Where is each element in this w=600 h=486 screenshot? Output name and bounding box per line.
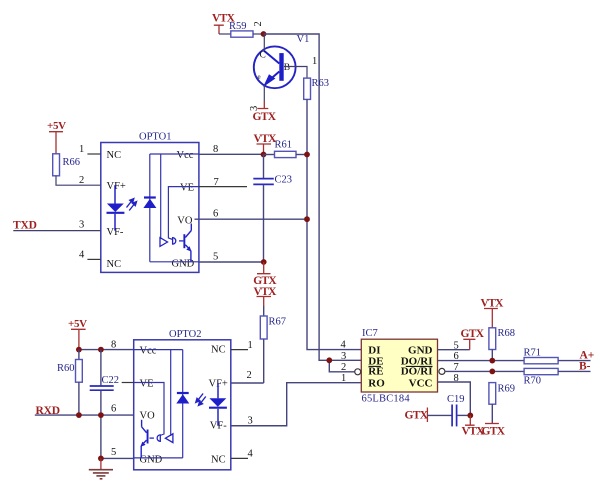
svg-text:RO: RO xyxy=(368,377,385,389)
inner gnd rail xyxy=(134,457,183,459)
svg-text:GND: GND xyxy=(408,344,433,356)
node DE/RE xyxy=(326,357,332,363)
wire pin8 VCC to C19 node xyxy=(438,382,471,415)
svg-text:B: B xyxy=(284,63,290,73)
buffer gate xyxy=(160,238,183,247)
power VTX top xyxy=(212,13,236,35)
VE inner wire xyxy=(168,187,199,240)
light arrows xyxy=(127,199,137,211)
pin 1 stub xyxy=(87,153,100,155)
power +5V (R66) xyxy=(47,120,66,154)
wire OPTO1 pin6 to R63 net xyxy=(195,218,308,220)
power +5V (R60) xyxy=(68,318,87,350)
node: R59 / V1 / DE net xyxy=(261,31,267,37)
wire node to DE vertical xyxy=(264,34,362,360)
svg-text:R63: R63 xyxy=(312,78,330,89)
svg-text:VTX: VTX xyxy=(462,425,486,437)
resistor R61 xyxy=(264,140,308,158)
node +5V/R60 xyxy=(76,347,82,353)
wire base to R63 xyxy=(284,67,307,79)
pin 2 bubble xyxy=(355,369,361,375)
svg-text:3: 3 xyxy=(341,351,346,362)
output transistor (mirrored) xyxy=(140,420,148,458)
svg-text:R66: R66 xyxy=(63,157,81,168)
inner rail B to buffer xyxy=(170,350,172,436)
wire R63 to DI (long vertical) xyxy=(307,99,361,349)
svg-text:GND: GND xyxy=(140,455,163,466)
svg-text:R67: R67 xyxy=(269,317,287,328)
svg-text:R68: R68 xyxy=(498,328,516,339)
svg-text:NC: NC xyxy=(211,345,226,356)
output transistor xyxy=(183,224,191,262)
optocoupler OPTO1 xyxy=(79,131,247,272)
svg-text:7: 7 xyxy=(214,177,219,188)
light arrows (mirrored) xyxy=(196,394,206,406)
SECTION: opto2 xyxy=(35,318,362,479)
svg-text:C23: C23 xyxy=(275,175,293,186)
svg-text:8: 8 xyxy=(111,340,116,351)
svg-text:NC: NC xyxy=(107,150,122,161)
wire pin5 to GTX xyxy=(438,349,470,351)
power VTX (R61) xyxy=(254,133,278,155)
svg-text:B-: B- xyxy=(579,361,591,373)
power GTX (V1 emitter) xyxy=(253,101,277,123)
svg-text:DO/RI: DO/RI xyxy=(401,366,433,378)
svg-text:65LBC184: 65LBC184 xyxy=(362,394,411,405)
svg-text:R71: R71 xyxy=(524,347,542,358)
svg-text:4: 4 xyxy=(341,340,347,351)
power GTX (R69) xyxy=(482,424,506,438)
svg-text:R70: R70 xyxy=(524,376,542,387)
svg-text:Vcc: Vcc xyxy=(177,150,194,161)
svg-text:6: 6 xyxy=(213,209,218,220)
svg-text:2: 2 xyxy=(79,175,84,186)
VE inner wire xyxy=(134,383,164,436)
node R68 xyxy=(489,358,495,364)
svg-text:OPTO1: OPTO1 xyxy=(139,131,171,142)
svg-text:VE: VE xyxy=(140,379,154,390)
svg-text:3: 3 xyxy=(79,220,84,231)
IC U7 (65LBC184) xyxy=(355,328,445,405)
power GTX (mid) xyxy=(253,262,277,287)
svg-text:+5V: +5V xyxy=(47,120,66,132)
node R61/R63 net xyxy=(304,152,310,158)
svg-text:NC: NC xyxy=(107,259,122,270)
SECTION: top transistor xyxy=(212,13,361,361)
svg-text:1: 1 xyxy=(248,340,253,351)
svg-text:GTX: GTX xyxy=(461,328,485,340)
optocoupler OPTO2 xyxy=(111,329,254,470)
transistor V1 xyxy=(254,34,310,101)
node VTX/R61/C23 xyxy=(261,152,267,158)
resistor R63 xyxy=(304,78,329,99)
svg-text:OPTO2: OPTO2 xyxy=(169,329,201,340)
node VO/R63 net xyxy=(304,216,310,222)
node R60/RXD xyxy=(76,412,82,418)
power GTX (C19) xyxy=(405,408,429,423)
resistor R69 xyxy=(489,383,515,424)
wire OPTO2 pin2 to R67 xyxy=(231,382,264,384)
svg-text:VCC: VCC xyxy=(409,377,433,389)
svg-text:GTX: GTX xyxy=(405,410,429,422)
ground xyxy=(89,458,113,478)
svg-text:VF+: VF+ xyxy=(107,181,126,192)
inner gnd rail xyxy=(150,261,199,263)
LED emitter diode (right) xyxy=(209,383,227,426)
svg-text:GTX: GTX xyxy=(482,425,506,437)
svg-text:IC7: IC7 xyxy=(362,328,378,339)
svg-text:1: 1 xyxy=(312,56,317,67)
resistor R66 xyxy=(53,154,101,185)
svg-text:VE: VE xyxy=(180,183,194,194)
capacitor C19 xyxy=(427,394,470,427)
power VTX (R68) xyxy=(481,297,505,328)
pin 7 stub xyxy=(122,382,134,384)
node C19/VCC xyxy=(467,413,473,419)
node C22 top xyxy=(98,347,104,353)
svg-text:4: 4 xyxy=(248,449,254,460)
wire pin7 to B- xyxy=(445,370,524,372)
svg-text:C22: C22 xyxy=(102,375,120,386)
SECTION: middle column xyxy=(195,133,310,383)
photodiode xyxy=(176,350,189,458)
svg-text:1: 1 xyxy=(79,144,84,155)
pin 4 stub xyxy=(231,457,248,459)
resistor R59 xyxy=(219,21,264,37)
pin 7 bubble xyxy=(439,368,445,374)
power VTX (R67) xyxy=(254,286,278,306)
pin 1 stub xyxy=(231,349,248,351)
power VTX (below C19 node) xyxy=(462,415,486,437)
pin 4 stub xyxy=(87,258,100,260)
svg-text:1: 1 xyxy=(341,373,346,384)
svg-text:TXD: TXD xyxy=(13,219,37,231)
resistor R67 xyxy=(260,306,286,383)
photodiode xyxy=(143,154,156,262)
svg-text:5: 5 xyxy=(111,447,116,458)
svg-text:8: 8 xyxy=(213,144,218,155)
capacitor C23 xyxy=(253,155,292,263)
svg-text:VO: VO xyxy=(177,215,193,226)
resistor R60 xyxy=(57,350,82,416)
svg-text:R69: R69 xyxy=(498,384,516,395)
inner rail B to buffer xyxy=(160,154,162,239)
svg-text:5: 5 xyxy=(213,252,218,263)
wire +5V rail to OPTO2 pin8 xyxy=(79,349,134,351)
svg-text:R60: R60 xyxy=(57,363,75,374)
wire OPTO1 pin5 to GTX node xyxy=(199,261,264,263)
SECTION: opto1 xyxy=(13,120,247,272)
resistor R70 xyxy=(524,368,591,386)
svg-text:GTX: GTX xyxy=(253,111,277,123)
wire gnd node to OPTO2 pin5 xyxy=(101,457,134,459)
svg-text:V1: V1 xyxy=(297,34,310,45)
resistor R68 xyxy=(489,328,515,361)
svg-text:C: C xyxy=(260,51,266,61)
svg-text:DI: DI xyxy=(368,344,380,356)
wire OPTO2 pin3 to RO xyxy=(231,383,361,426)
svg-text:Vcc: Vcc xyxy=(140,346,157,357)
node C22/RXD xyxy=(98,412,104,418)
wire RE to DE tie xyxy=(329,360,354,372)
node C23/pin5/GTX xyxy=(261,259,267,265)
LED emitter diode xyxy=(107,185,125,230)
capacitor C22 xyxy=(90,350,119,459)
svg-text:e: e xyxy=(258,73,261,81)
port RXD xyxy=(35,405,140,417)
pin 7 stub xyxy=(199,186,247,188)
inner vcc rail xyxy=(150,153,199,155)
port TXD xyxy=(13,219,101,231)
power GTX (pin5) xyxy=(461,328,485,350)
svg-text:NC: NC xyxy=(211,455,226,466)
resistor R71 xyxy=(524,347,591,363)
svg-text:4: 4 xyxy=(79,250,85,261)
svg-text:2: 2 xyxy=(247,370,252,381)
svg-text:2: 2 xyxy=(253,21,264,26)
svg-text:R61: R61 xyxy=(275,140,293,151)
wire pin6 to A+ xyxy=(438,360,525,362)
svg-text:A+: A+ xyxy=(580,349,595,361)
wire OPTO1 pin8 to VTX node xyxy=(199,153,264,155)
buffer gate (mirrored) xyxy=(150,434,173,443)
SECTION: ic7 xyxy=(326,297,594,437)
svg-text:3: 3 xyxy=(248,416,253,427)
svg-text:6: 6 xyxy=(111,404,116,415)
node gnd xyxy=(98,456,104,462)
svg-text:VTX: VTX xyxy=(481,297,505,309)
node R69 xyxy=(489,369,495,375)
inner vcc rail xyxy=(134,349,183,351)
svg-text:+5V: +5V xyxy=(68,318,87,330)
svg-text:RE: RE xyxy=(368,365,383,377)
svg-text:C19: C19 xyxy=(447,394,465,405)
